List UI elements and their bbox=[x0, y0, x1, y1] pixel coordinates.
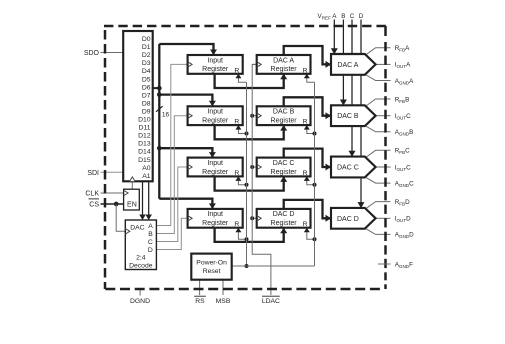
svg-text:R: R bbox=[303, 221, 308, 228]
svg-text:D15: D15 bbox=[138, 157, 151, 164]
svg-text:D0: D0 bbox=[142, 36, 151, 43]
svg-text:DAC C: DAC C bbox=[337, 165, 359, 172]
svg-text:DAC A: DAC A bbox=[273, 57, 294, 64]
svg-text:R: R bbox=[234, 67, 239, 74]
svg-text:16: 16 bbox=[162, 112, 170, 119]
svg-text:CS: CS bbox=[89, 202, 99, 209]
svg-text:Input: Input bbox=[207, 57, 223, 64]
svg-text:C: C bbox=[148, 239, 153, 246]
svg-text:RS: RS bbox=[195, 298, 205, 305]
svg-text:Register: Register bbox=[202, 169, 229, 176]
svg-text:Input: Input bbox=[207, 109, 223, 116]
svg-text:MSB: MSB bbox=[216, 298, 231, 305]
svg-text:DAC D: DAC D bbox=[337, 216, 359, 223]
svg-text:D1: D1 bbox=[142, 44, 151, 51]
svg-text:D: D bbox=[359, 13, 364, 20]
svg-text:Register: Register bbox=[271, 169, 298, 176]
svg-text:A: A bbox=[148, 223, 153, 230]
svg-text:Power-On: Power-On bbox=[196, 259, 227, 266]
svg-text:D14: D14 bbox=[138, 149, 151, 156]
svg-text:DAC A: DAC A bbox=[337, 62, 358, 69]
svg-text:2:4: 2:4 bbox=[136, 254, 146, 261]
svg-text:DAC B: DAC B bbox=[337, 113, 359, 120]
svg-text:D3: D3 bbox=[142, 60, 151, 67]
svg-text:Input: Input bbox=[207, 211, 223, 218]
svg-text:DAC D: DAC D bbox=[273, 211, 295, 218]
svg-text:D2: D2 bbox=[142, 52, 151, 59]
svg-text:D11: D11 bbox=[139, 125, 151, 132]
svg-text:Decode: Decode bbox=[129, 262, 153, 269]
svg-text:R: R bbox=[303, 67, 308, 74]
svg-text:D5: D5 bbox=[142, 76, 151, 83]
svg-text:D12: D12 bbox=[138, 133, 151, 140]
svg-text:A0: A0 bbox=[142, 165, 151, 172]
svg-text:Reset: Reset bbox=[203, 268, 221, 275]
svg-text:R: R bbox=[234, 119, 239, 126]
svg-text:B: B bbox=[341, 13, 345, 20]
svg-text:C: C bbox=[350, 13, 355, 20]
svg-text:D7: D7 bbox=[142, 92, 151, 99]
svg-text:Register: Register bbox=[202, 220, 229, 227]
svg-text:D13: D13 bbox=[138, 141, 151, 148]
svg-text:R: R bbox=[234, 221, 239, 228]
svg-text:Input: Input bbox=[207, 160, 223, 167]
svg-text:R: R bbox=[234, 170, 239, 177]
svg-text:D4: D4 bbox=[142, 68, 151, 75]
svg-text:Register: Register bbox=[202, 66, 229, 73]
svg-text:DAC B: DAC B bbox=[273, 109, 295, 116]
svg-text:Register: Register bbox=[271, 118, 298, 125]
svg-text:SDI: SDI bbox=[87, 170, 99, 177]
svg-text:A1: A1 bbox=[142, 173, 151, 180]
svg-text:D9: D9 bbox=[142, 108, 151, 115]
svg-text:DAC: DAC bbox=[130, 224, 144, 231]
svg-text:D: D bbox=[148, 247, 153, 254]
svg-text:EN: EN bbox=[127, 201, 137, 208]
svg-text:B: B bbox=[148, 231, 153, 238]
svg-text:Register: Register bbox=[202, 118, 229, 125]
svg-text:D8: D8 bbox=[142, 100, 151, 107]
svg-text:R: R bbox=[303, 119, 308, 126]
svg-text:R: R bbox=[303, 170, 308, 177]
svg-text:LDAC: LDAC bbox=[262, 298, 280, 305]
svg-text:CLK: CLK bbox=[85, 191, 99, 198]
svg-text:Register: Register bbox=[271, 66, 298, 73]
svg-text:DGND: DGND bbox=[130, 298, 150, 305]
svg-text:D10: D10 bbox=[138, 117, 151, 124]
svg-text:D6: D6 bbox=[142, 84, 151, 91]
svg-text:DAC C: DAC C bbox=[273, 160, 295, 167]
svg-text:SDO: SDO bbox=[84, 50, 100, 57]
svg-text:Register: Register bbox=[271, 220, 298, 227]
